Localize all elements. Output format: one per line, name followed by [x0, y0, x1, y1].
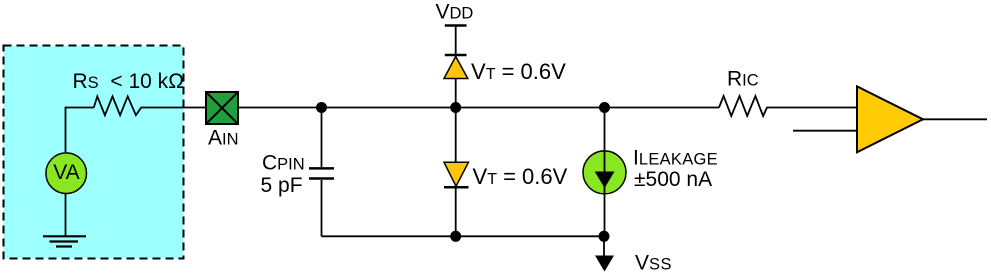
svg-text:CPIN: CPIN — [262, 151, 305, 174]
svg-text:ILEAKAGE: ILEAKAGE — [633, 147, 718, 170]
svg-text:VSS: VSS — [635, 251, 672, 273]
svg-text:±500 nA: ±500 nA — [634, 168, 712, 191]
svg-text:5 pF: 5 pF — [261, 174, 303, 197]
svg-text:VA: VA — [53, 161, 79, 184]
svg-text:RIC: RIC — [727, 67, 759, 90]
svg-text:RS < 10 kΩ: RS < 10 kΩ — [73, 70, 185, 93]
svg-text:AIN: AIN — [208, 126, 239, 149]
svg-text:VT = 0.6V: VT = 0.6V — [473, 164, 568, 189]
svg-text:VDD: VDD — [436, 0, 474, 23]
svg-text:VT = 0.6V: VT = 0.6V — [471, 59, 566, 84]
